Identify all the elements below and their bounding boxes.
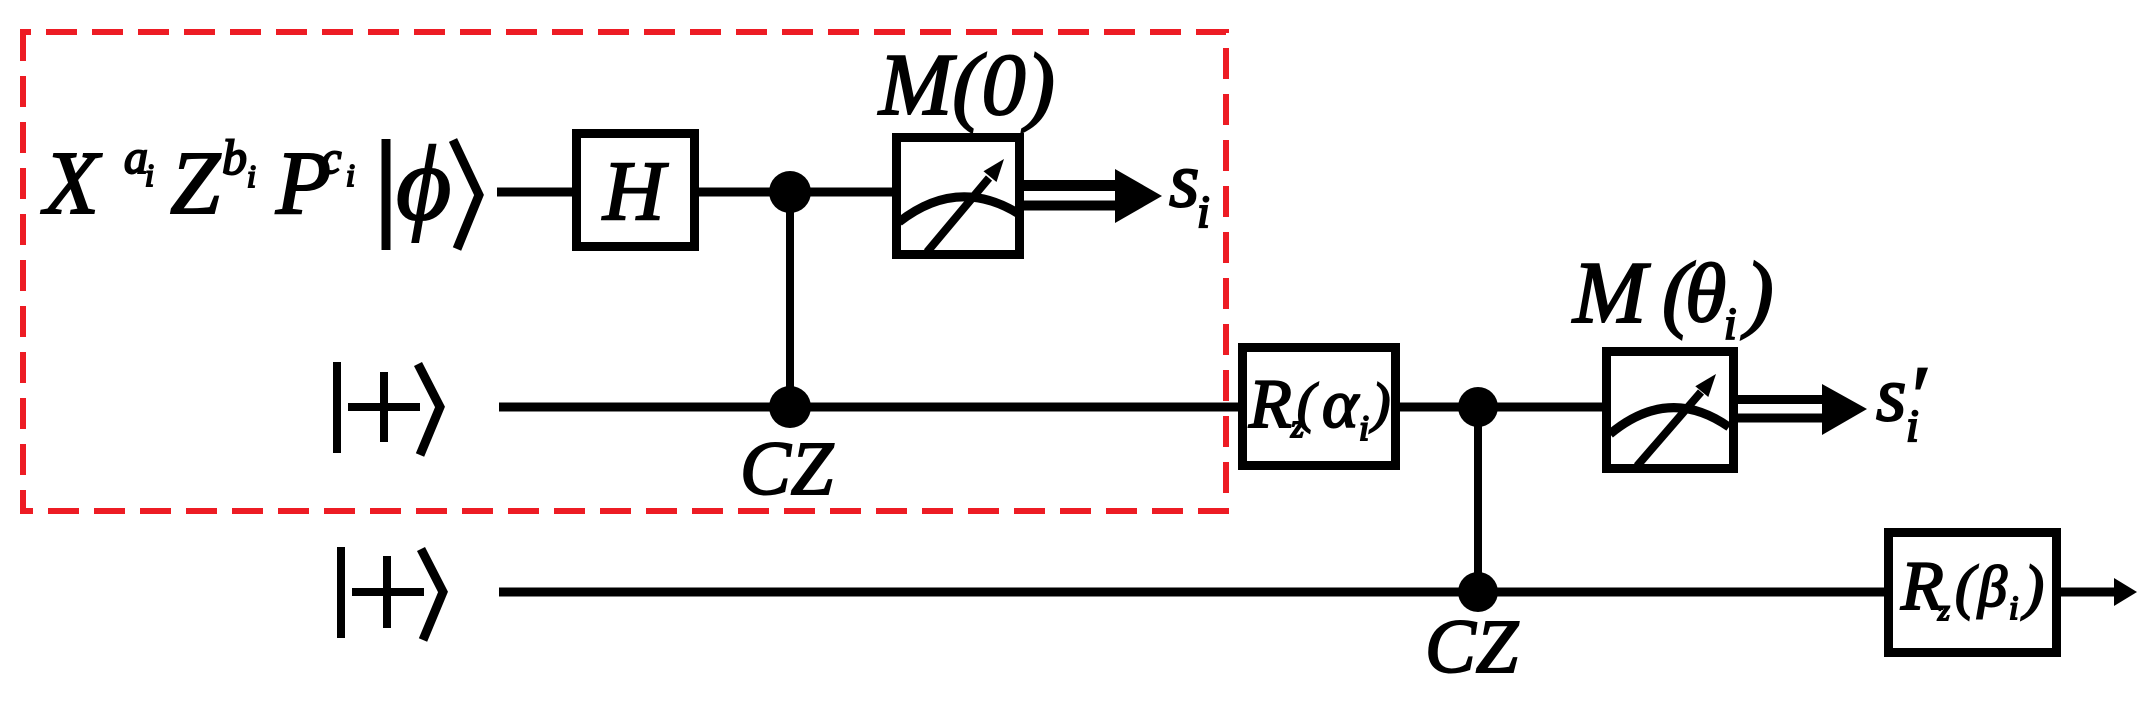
svg-text:M(0): M(0) <box>877 37 1055 134</box>
svg-text:ϕ: ϕ <box>396 125 451 243</box>
svg-text:s: s <box>1169 136 1199 223</box>
svg-text:b: b <box>222 129 247 185</box>
ket |+> on qubit 2 <box>337 362 440 455</box>
wire q3 output with arrowhead <box>2057 588 2122 597</box>
svg-text:M: M <box>1571 245 1651 342</box>
measurement label M(theta_i) <box>1571 244 1774 349</box>
double-line classical output arrow for s'_i <box>1738 384 1867 435</box>
double-line classical output arrow for s_i <box>1024 169 1162 223</box>
svg-text:CZ: CZ <box>740 427 834 511</box>
output label s'_i <box>1876 349 1927 451</box>
measurement box M(0) <box>897 138 1020 255</box>
output label s_i <box>1169 136 1210 237</box>
svg-text:s: s <box>1876 350 1906 437</box>
svg-text:i: i <box>1359 408 1369 448</box>
wire q2 from Rz(alpha) to meter <box>1398 403 1605 412</box>
wire q1 from H to meter M(0) <box>699 188 894 197</box>
svg-text:i: i <box>247 158 256 194</box>
CZ gate 1 control dot on q2 <box>769 386 811 428</box>
svg-text:β: β <box>1977 554 2007 619</box>
gate Rz(beta_i) box <box>1889 533 2057 653</box>
svg-text:R: R <box>1248 366 1292 443</box>
CZ gate 2 control dot on q3 <box>1458 572 1498 612</box>
wire q2 from ket to Rz(alpha) <box>499 403 1242 412</box>
svg-text:i: i <box>346 157 355 193</box>
CZ gate 2 control dot on q2 <box>1458 387 1498 427</box>
gate H box <box>577 134 695 247</box>
svg-text:α: α <box>1322 366 1360 442</box>
CZ gate 1 control dot on q1 <box>769 171 811 213</box>
CZ gate 2 vertical link <box>1474 407 1482 592</box>
svg-text:CZ: CZ <box>1425 605 1519 689</box>
gate Rz(beta_i) label <box>1900 548 2044 627</box>
svg-text:): ) <box>1369 372 1390 433</box>
svg-text:i: i <box>2009 590 2018 627</box>
gate Rz(alpha_i) box <box>1243 348 1396 466</box>
svg-text:Z: Z <box>170 134 221 233</box>
measurement box M(theta_i) <box>1607 352 1734 469</box>
red dashed box (first teleportation step) <box>23 32 1226 511</box>
ket |phi> on qubit 1 <box>386 125 479 250</box>
gate Rz(alpha_i) label <box>1248 366 1390 448</box>
wire q3 from ket to Rz(beta) <box>499 588 1888 597</box>
svg-text:H: H <box>602 144 669 238</box>
svg-text:i: i <box>1724 299 1737 349</box>
svg-text:i: i <box>145 157 154 193</box>
svg-text:′: ′ <box>1907 349 1927 443</box>
qubit 1 input label X^{a_i} Z^{b_i} P^{c_i} <box>41 129 355 233</box>
wire q1 stub before H <box>497 188 574 197</box>
svg-text:c: c <box>321 132 341 183</box>
svg-text:θ: θ <box>1685 247 1726 340</box>
CZ gate 1 vertical link <box>786 192 794 407</box>
svg-text:X: X <box>41 134 102 233</box>
svg-text:z: z <box>1937 594 1950 627</box>
svg-text:): ) <box>2021 554 2044 620</box>
svg-text:i: i <box>1197 186 1210 237</box>
ket |+> on qubit 3 <box>341 547 443 640</box>
svg-text:): ) <box>1740 244 1774 340</box>
